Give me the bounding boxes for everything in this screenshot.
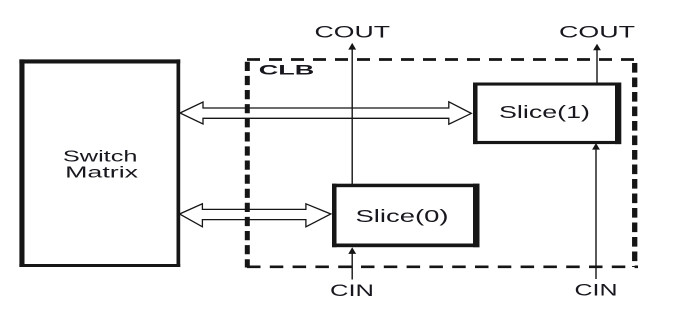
arrowhead CIN Slice(0)	[348, 247, 356, 254]
svg-text:Slice(0): Slice(0)	[356, 206, 449, 226]
arrowhead COUT Slice(1)	[593, 44, 601, 51]
wire: CLB top dashed edge	[247, 58, 636, 61]
block: Slice(0) box	[332, 184, 480, 248]
svg-text:CIN: CIN	[330, 281, 374, 300]
svg-text:Slice(1): Slice(1)	[499, 102, 590, 122]
svg-text:CIN: CIN	[575, 281, 618, 300]
block: Switch Matrix box	[19, 59, 180, 267]
wire: hollow double arrow Switch Matrix to Slice(1)	[180, 102, 471, 124]
svg-text:Matrix: Matrix	[65, 164, 138, 181]
svg-text:COUT: COUT	[559, 22, 635, 41]
wire: COUT line from Slice(1)	[596, 50, 598, 85]
CLB dashed boundary box	[247, 60, 638, 268]
wire: CLB left dashed edge	[245, 62, 250, 268]
wire: CIN line into Slice(1)	[595, 149, 597, 280]
wire: CLB bottom dashed edge	[247, 265, 638, 268]
wire: CLB right dashed edge	[632, 63, 637, 267]
svg-text:Switch: Switch	[63, 148, 138, 165]
arrowhead COUT Slice(0)	[348, 43, 356, 50]
wire: hollow double arrow Switch Matrix to Slice(0)	[180, 204, 331, 227]
svg-text:CLB: CLB	[259, 63, 315, 78]
wire: CIN line into Slice(0)	[351, 253, 353, 280]
svg-text:COUT: COUT	[315, 22, 391, 41]
block: Slice(1) box	[473, 83, 621, 145]
wire: COUT line from Slice(0)	[351, 49, 353, 184]
arrowhead CIN Slice(1)	[592, 143, 600, 150]
